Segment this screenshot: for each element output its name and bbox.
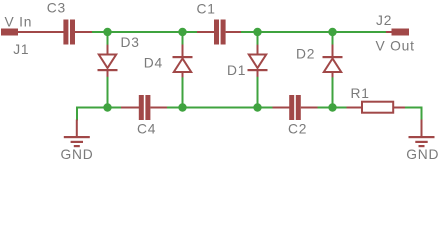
wire: net C4 to C2 (green, bottom rail) <box>167 107 273 109</box>
junction: bottom rail at D4 <box>178 103 186 111</box>
diode D1 <box>248 32 268 108</box>
capacitor C1 <box>214 20 226 45</box>
wire: net C3 to C1 (green, top rail) <box>92 31 197 33</box>
svg-text:V In: V In <box>5 15 33 30</box>
svg-text:R1: R1 <box>351 86 370 101</box>
svg-text:C2: C2 <box>288 122 307 137</box>
svg-text:D3: D3 <box>121 35 140 50</box>
wire: C3 right plate pin (red) <box>75 31 92 33</box>
diode D3 <box>98 32 118 108</box>
junction: bottom rail at D1 <box>253 103 261 111</box>
wire: J2 pin (red) <box>386 31 392 33</box>
wire: C2 right pin (red) <box>301 107 318 109</box>
wire: C2 left pin (red) <box>273 107 290 109</box>
diode D4 <box>173 32 193 108</box>
svg-text:C4: C4 <box>137 122 156 137</box>
svg-text:C3: C3 <box>47 1 66 16</box>
junction: top rail at D1 <box>253 28 261 36</box>
svg-text:GND: GND <box>61 147 94 162</box>
wire: C1 left pin (red) <box>197 31 214 33</box>
junction: top rail at D3 <box>103 28 111 36</box>
wire: R1 right pin (red) <box>394 107 405 109</box>
capacitor C4 <box>139 95 151 120</box>
svg-text:D4: D4 <box>144 56 163 71</box>
ground GND (left) <box>64 120 90 148</box>
svg-text:GND: GND <box>406 147 439 162</box>
connector J2 pad <box>392 29 410 36</box>
capacitor C2 <box>289 95 301 120</box>
svg-text:D1: D1 <box>227 63 246 78</box>
connector J1 pad <box>1 29 18 36</box>
svg-text:J2: J2 <box>376 13 392 28</box>
wire: net C1 to J2 (green, top rail) <box>241 31 386 33</box>
junction: bottom rail at D3 <box>103 103 111 111</box>
wire: C1 right pin (red) <box>226 31 241 33</box>
wire: C4 left pin (red) <box>121 107 139 109</box>
wire: J1 pin to C3 left plate <box>17 31 64 33</box>
svg-text:J1: J1 <box>13 42 29 57</box>
wire: net C2 to R1 (green, bottom rail) <box>318 107 347 109</box>
svg-text:V Out: V Out <box>376 39 415 54</box>
ground GND (right) <box>409 120 435 148</box>
wire: bottom rail left elbow (green) <box>77 108 121 121</box>
svg-text:D2: D2 <box>296 47 315 62</box>
junction: top rail at D2 <box>328 28 336 36</box>
svg-text:C1: C1 <box>197 2 216 17</box>
junction: top rail at D4 <box>178 28 186 36</box>
capacitor C3 <box>63 20 75 45</box>
wire: R1 left pin (red) <box>347 107 363 109</box>
wire: C4 right pin (red) <box>150 107 167 109</box>
resistor R1 <box>362 102 393 113</box>
wire: bottom rail right elbow (green) <box>405 108 422 121</box>
diode D2 <box>323 32 343 108</box>
junction: bottom rail at D2 <box>328 103 336 111</box>
